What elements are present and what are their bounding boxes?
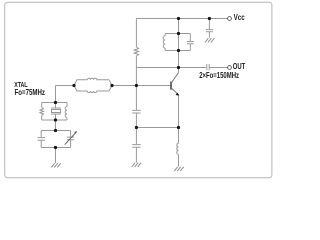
svg-text:2×Fo=150MHz: 2×Fo=150MHz: [199, 70, 239, 80]
svg-text:Vcc: Vcc: [234, 13, 246, 22]
svg-text:Fo=75MHz: Fo=75MHz: [15, 87, 46, 97]
